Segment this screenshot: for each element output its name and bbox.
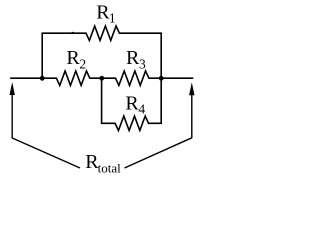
- node B (middle junction): [99, 76, 104, 81]
- svg-text:1: 1: [109, 11, 116, 26]
- wire top loop with resistor R1: [42, 26, 161, 78]
- svg-text:total: total: [98, 161, 121, 176]
- svg-text:R: R: [66, 47, 80, 69]
- svg-text:4: 4: [138, 102, 145, 117]
- wire right arrow lead and diagonal to Rtotal: [125, 95, 192, 169]
- svg-text:R: R: [126, 47, 140, 69]
- node C (right junction): [159, 76, 164, 81]
- arrowhead right: [189, 82, 194, 95]
- wire left arrow lead and diagonal to Rtotal: [12, 94, 80, 168]
- svg-text:2: 2: [79, 56, 86, 71]
- svg-text:3: 3: [139, 56, 146, 71]
- svg-text:R: R: [125, 92, 139, 114]
- node A (left junction): [40, 76, 45, 81]
- wire main line with resistor R2 and resistor R3: [10, 71, 193, 85]
- junction tick on top wire: [72, 32, 74, 34]
- arrowhead left: [10, 82, 15, 95]
- wire bottom loop with resistor R4: [102, 78, 162, 130]
